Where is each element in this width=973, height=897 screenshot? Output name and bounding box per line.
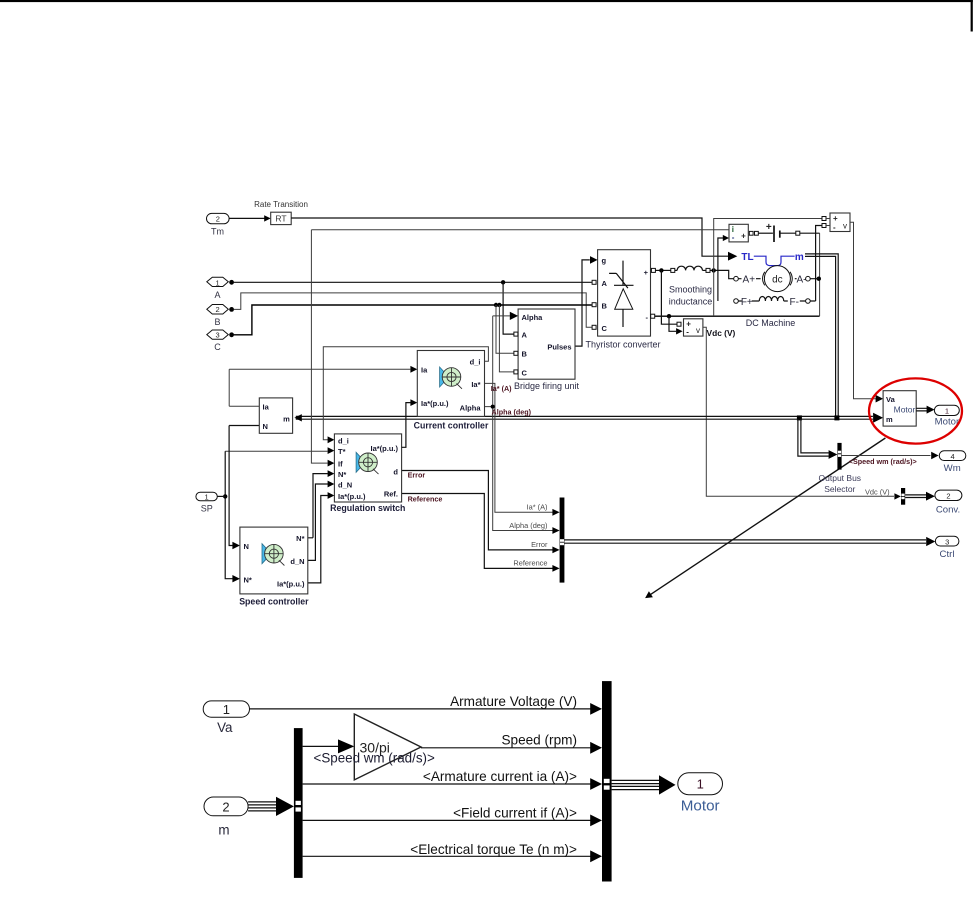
svg-text:Ia*(p.u.): Ia*(p.u.) xyxy=(421,399,449,408)
svg-text:C: C xyxy=(602,324,608,333)
svg-text:d: d xyxy=(393,467,398,476)
svg-text:Ia*(p.u.): Ia*(p.u.) xyxy=(371,444,399,453)
svg-text:4: 4 xyxy=(951,452,955,461)
svg-text:Regulation switch: Regulation switch xyxy=(330,503,405,513)
svg-text:Speed controller: Speed controller xyxy=(239,596,309,606)
svg-text:v: v xyxy=(696,326,700,335)
svg-text:Speed (rpm): Speed (rpm) xyxy=(501,733,577,748)
svg-text:SP: SP xyxy=(201,503,213,513)
svg-text:+: + xyxy=(833,214,838,223)
svg-text:dc: dc xyxy=(772,274,783,285)
svg-text:d_N: d_N xyxy=(290,557,304,566)
svg-text:Error: Error xyxy=(531,540,548,549)
svg-text:Va: Va xyxy=(886,395,896,404)
svg-text:N*: N* xyxy=(296,534,304,543)
svg-text:2: 2 xyxy=(216,215,220,224)
svg-text:Reference: Reference xyxy=(408,495,443,504)
svg-text:+: + xyxy=(644,268,649,277)
svg-text:<Electrical torque Te (n m)>: <Electrical torque Te (n m)> xyxy=(410,842,577,857)
svg-text:DC Machine: DC Machine xyxy=(746,318,796,328)
svg-text:Error: Error xyxy=(408,471,426,480)
svg-text:1: 1 xyxy=(216,278,220,287)
svg-text:d_i: d_i xyxy=(470,357,481,366)
svg-text:Ia*(p.u.): Ia*(p.u.) xyxy=(277,580,305,589)
svg-text:Armature Voltage (V): Armature Voltage (V) xyxy=(450,694,577,709)
svg-text:Vdc (V): Vdc (V) xyxy=(865,487,890,496)
svg-text:-: - xyxy=(833,223,836,232)
svg-text:Pulses: Pulses xyxy=(547,343,571,352)
svg-text:B: B xyxy=(214,317,220,327)
svg-text:Ia* (A): Ia* (A) xyxy=(527,503,548,512)
svg-text:Ia*(p.u.): Ia*(p.u.) xyxy=(338,492,366,501)
svg-text:2: 2 xyxy=(216,305,220,314)
svg-text:A: A xyxy=(522,331,528,340)
svg-text:Motor: Motor xyxy=(894,405,916,415)
svg-text:C: C xyxy=(214,342,221,352)
svg-text:Rate Transition: Rate Transition xyxy=(254,200,308,209)
svg-text:B: B xyxy=(602,302,608,311)
svg-text:2: 2 xyxy=(946,492,950,501)
svg-text:Thyristor converter: Thyristor converter xyxy=(585,340,660,350)
svg-text:C: C xyxy=(522,368,528,377)
svg-text:Current controller: Current controller xyxy=(414,421,489,431)
svg-text:N*: N* xyxy=(244,575,252,584)
svg-text:A: A xyxy=(214,290,220,300)
svg-text:Alpha (deg): Alpha (deg) xyxy=(492,408,532,417)
svg-text:F+: F+ xyxy=(741,297,753,308)
svg-text:Wm: Wm xyxy=(944,463,961,474)
svg-text:A+: A+ xyxy=(743,274,756,285)
svg-text:2: 2 xyxy=(222,799,229,814)
svg-text:Vdc (V): Vdc (V) xyxy=(707,328,736,338)
svg-text:m: m xyxy=(218,822,229,837)
svg-text:+: + xyxy=(741,232,746,241)
svg-text:Smoothing: Smoothing xyxy=(669,285,712,295)
svg-text:1: 1 xyxy=(223,702,230,717)
svg-text:Conv.: Conv. xyxy=(936,504,960,515)
svg-text:1: 1 xyxy=(945,407,949,416)
svg-text:Ref.: Ref. xyxy=(384,490,398,499)
svg-text:N: N xyxy=(263,422,268,431)
svg-text:3: 3 xyxy=(216,331,220,340)
svg-text:B: B xyxy=(522,350,528,359)
svg-text:+: + xyxy=(766,222,772,233)
svg-text:Va: Va xyxy=(217,720,233,735)
svg-text:If: If xyxy=(338,460,343,469)
svg-text:Reference: Reference xyxy=(513,559,547,568)
svg-text:v: v xyxy=(843,221,847,230)
svg-text:1: 1 xyxy=(205,492,209,501)
svg-text:<Armature current ia (A)>: <Armature current ia (A)> xyxy=(423,769,577,784)
svg-text:d_i: d_i xyxy=(338,436,349,445)
svg-text:A-: A- xyxy=(797,274,807,285)
svg-text:F-: F- xyxy=(789,297,798,308)
svg-text:Output Bus: Output Bus xyxy=(819,473,862,483)
svg-text:Ia* (A): Ia* (A) xyxy=(491,384,512,393)
svg-text:inductance: inductance xyxy=(669,297,713,307)
svg-text:<Speed wm (rad/s)>: <Speed wm (rad/s)> xyxy=(314,751,435,766)
svg-text:Ctrl: Ctrl xyxy=(940,549,955,560)
svg-text:Motor: Motor xyxy=(681,798,720,815)
svg-text:A: A xyxy=(602,279,608,288)
svg-text:g: g xyxy=(602,256,607,265)
svg-text:Ia*: Ia* xyxy=(471,380,480,389)
svg-text:m: m xyxy=(795,252,804,263)
svg-text:<Speed wm (rad/s)>: <Speed wm (rad/s)> xyxy=(849,457,917,466)
svg-text:Alpha (deg): Alpha (deg) xyxy=(509,521,547,530)
svg-text:TL: TL xyxy=(741,252,753,263)
svg-text:3: 3 xyxy=(945,537,949,546)
svg-text:1: 1 xyxy=(697,777,704,792)
svg-text:Alpha: Alpha xyxy=(460,403,482,412)
svg-text:<Field current if (A)>: <Field current if (A)> xyxy=(453,806,577,821)
svg-text:Tm: Tm xyxy=(211,227,224,237)
svg-text:RT: RT xyxy=(275,213,286,223)
svg-text:m: m xyxy=(283,415,290,424)
svg-text:Bridge firing unit: Bridge firing unit xyxy=(514,381,580,391)
svg-text:Ia: Ia xyxy=(421,366,428,375)
svg-text:N*: N* xyxy=(338,470,346,479)
svg-text:N: N xyxy=(244,542,249,551)
svg-text:Alpha: Alpha xyxy=(522,313,544,322)
svg-text:-: - xyxy=(686,328,689,337)
svg-text:Selector: Selector xyxy=(824,484,855,494)
svg-text:-: - xyxy=(732,233,735,242)
svg-text:d_N: d_N xyxy=(338,481,352,490)
svg-text:m: m xyxy=(886,415,893,424)
svg-text:Ia: Ia xyxy=(263,403,270,412)
svg-text:T*: T* xyxy=(338,447,346,456)
